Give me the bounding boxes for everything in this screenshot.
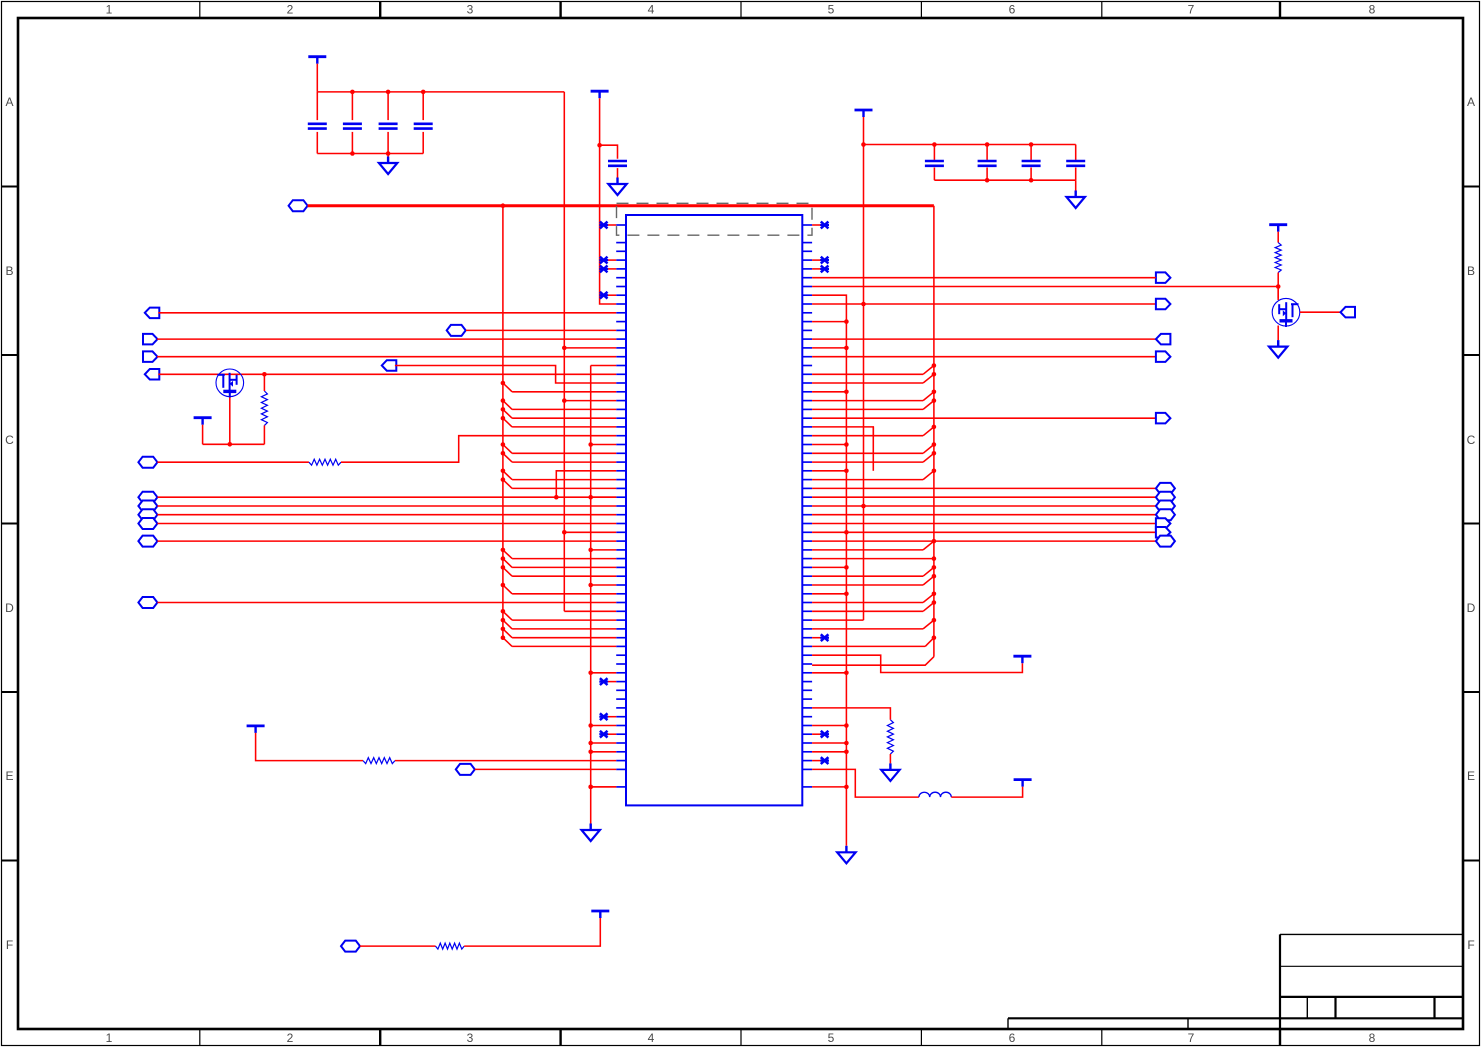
transistor Q2 [1272, 298, 1300, 326]
junction [350, 151, 355, 156]
wire net k64 [591, 786, 617, 788]
wire cap C3 top lead [387, 92, 389, 120]
wire tap B k20 [564, 400, 616, 402]
port IO D0 [138, 492, 157, 503]
resistor R2 [309, 459, 341, 465]
no-connect L0 [600, 222, 608, 229]
svg-text:5: 5 [828, 3, 835, 17]
svg-text:C: C [1467, 433, 1476, 447]
ground symbol GND1 [387, 157, 389, 164]
junction [932, 635, 937, 640]
junction [562, 398, 567, 403]
svg-text:B: B [1467, 264, 1475, 278]
svg-text:1: 1 [106, 3, 113, 17]
ground symbol GND3 [1074, 191, 1076, 198]
IC U1 left pins [616, 224, 626, 226]
svg-text:4: 4 [648, 1031, 655, 1045]
wire cap C6 bottom lead [933, 168, 935, 181]
wire net IO2 b [341, 436, 616, 463]
port OUT2 [143, 351, 158, 362]
wire main bus [308, 204, 934, 207]
junction [861, 302, 866, 307]
junction [844, 530, 849, 535]
wire Q2 gate [1300, 311, 1341, 313]
wire net RX1 [812, 338, 1156, 340]
port TX3 [1156, 351, 1171, 362]
no-connect L5 [600, 266, 608, 273]
wire VCC5 stem [256, 733, 363, 761]
junction [932, 556, 937, 561]
junction [262, 372, 267, 377]
wire net k45 [812, 619, 863, 621]
wire net k49 [812, 655, 1022, 672]
wire Q1 source rail [203, 443, 265, 445]
wire VCC3 stem / trunk F [863, 117, 865, 620]
wire net A3 [812, 514, 1156, 516]
dashed group box [617, 203, 813, 235]
wire net D3 [157, 523, 616, 525]
capacitor C3 [379, 123, 398, 126]
IC U1 right pins [802, 224, 812, 226]
port IN1 [145, 308, 160, 319]
wire net D1 [157, 505, 616, 507]
wire net k28 riser [556, 471, 616, 497]
wire net IO5 b [464, 918, 600, 946]
power symbol VCC5 [247, 725, 265, 728]
wire trunk A [502, 206, 504, 638]
wire trunk G tail [812, 657, 934, 666]
junction [562, 530, 567, 535]
junction [554, 495, 559, 500]
wire net TX2 [812, 303, 1156, 305]
wire net TX5 [812, 523, 1156, 525]
wire riser [872, 427, 874, 471]
wire net A2 [812, 505, 1156, 507]
wire trunk G [933, 206, 935, 657]
wire cap C4 bottom lead [422, 132, 424, 154]
wire cap C1 top lead [316, 92, 318, 120]
port IO A2 [1156, 501, 1175, 512]
title block [1279, 934, 1281, 1029]
wire net k23 [812, 427, 873, 436]
port IO D2 [138, 509, 157, 520]
port IO D5 [138, 597, 157, 608]
svg-text:8: 8 [1369, 3, 1376, 17]
ground symbol GND4 [590, 824, 592, 831]
wire net k48 [812, 645, 925, 647]
port CTRL [1341, 307, 1356, 318]
wire net k61 [395, 760, 616, 762]
wire Q2 drain [1277, 287, 1279, 301]
wire net IO1 [466, 329, 616, 331]
port IO A4 [1156, 536, 1175, 547]
wire net k38 [812, 558, 934, 560]
port IN3 [382, 360, 397, 371]
svg-text:D: D [5, 601, 14, 615]
svg-text:4: 4 [648, 3, 655, 17]
wire net D5 [157, 602, 616, 604]
capacitor C4 [414, 123, 433, 126]
wire net k62 b [951, 787, 1022, 798]
svg-text:6: 6 [1009, 3, 1016, 17]
wire Q2 source [1277, 326, 1279, 341]
IC U1 [626, 215, 802, 805]
wire net k8 [812, 295, 846, 846]
wire net IN1 [158, 312, 616, 314]
capacitor C5 [608, 160, 627, 163]
port OUT1 [143, 334, 158, 345]
junction [228, 442, 233, 447]
wire net IO2 a [157, 461, 309, 463]
wire cap C7 bottom lead [986, 168, 988, 181]
no-connect stubs [607, 224, 616, 226]
wire gnd lead [387, 154, 389, 157]
no-connect L52 [600, 678, 608, 685]
resistor R6 [436, 943, 465, 949]
ground symbol GND6 [845, 846, 847, 853]
junction [985, 178, 990, 183]
no-connect L8 [600, 292, 608, 299]
wire cap C1 bottom lead [316, 132, 318, 154]
wire cap C8 bottom lead [1030, 168, 1032, 181]
power symbol VCC4 [194, 416, 212, 419]
no-connect R58 [821, 731, 829, 738]
transistor Q1 [216, 369, 244, 397]
port bus port VDD [289, 200, 308, 211]
no-connect L4 [600, 257, 608, 264]
wire net OUT1 [157, 338, 616, 340]
wire cap C4 top lead [422, 92, 424, 120]
wire R4 to junction [1277, 273, 1279, 299]
capacitor C2 [343, 123, 362, 126]
wire trunk A taps [501, 381, 506, 386]
wire VCC6 stem [1277, 232, 1279, 243]
wire VCC rail top-left [317, 91, 564, 93]
svg-text:F: F [6, 938, 13, 952]
port IO A1 [1156, 492, 1175, 503]
wire trunk B [563, 92, 565, 611]
wire gnd rail top-right [934, 179, 1075, 181]
svg-text:E: E [1467, 769, 1475, 783]
port TX2 [1156, 299, 1171, 310]
port IO D4 [138, 536, 157, 547]
wire net Q2 gate-drain [812, 286, 1278, 288]
wire VCC1 stem [316, 64, 318, 92]
wire net TX1 [812, 277, 1156, 279]
resistor R4 [1275, 243, 1281, 273]
port IO A3 [1156, 509, 1175, 520]
wire tap C k16 [591, 365, 617, 367]
port TX4 [1156, 413, 1171, 424]
junction [861, 504, 866, 509]
wire net TX3 [812, 356, 1156, 358]
capacitor C7 [978, 160, 997, 163]
wire cap C9 top lead [1075, 145, 1077, 160]
wire net k62 a [812, 769, 919, 797]
svg-text:7: 7 [1188, 1031, 1195, 1045]
svg-text:2: 2 [287, 3, 294, 17]
no-connect L58 [600, 731, 608, 738]
ground symbol GND2 [616, 178, 618, 185]
svg-text:3: 3 [467, 1031, 474, 1045]
wire C5 bottom lead [617, 168, 619, 177]
resistor R1 [261, 391, 267, 425]
ground symbol GND5 [1277, 340, 1279, 347]
no-connect R61 [821, 757, 829, 764]
svg-text:F: F [1467, 938, 1474, 952]
svg-text:D: D [1467, 601, 1476, 615]
junction [932, 142, 937, 147]
wire net IO3 [475, 768, 616, 770]
wire net k24 pin [812, 435, 873, 437]
port IO D3 [138, 518, 157, 529]
wire trunk C [590, 366, 592, 824]
junction [1276, 284, 1281, 289]
power symbol VCC7 [1013, 655, 1031, 658]
junction trunk A on bus [501, 203, 506, 208]
wire cap C8 top lead [1030, 145, 1032, 160]
wire cap C2 top lead [351, 92, 353, 120]
port TX1 [1156, 272, 1171, 283]
no-connect L56 [600, 713, 608, 720]
no-connect R5 [821, 266, 829, 273]
port TX6 [1156, 527, 1171, 538]
port IO1 [447, 325, 466, 336]
junction [350, 90, 355, 95]
wire gnd rail top-left [317, 153, 423, 155]
svg-text:2: 2 [287, 1031, 294, 1045]
wire net A1 [812, 496, 1156, 498]
wire net D4 [157, 540, 616, 542]
port IO A0 [1156, 483, 1175, 494]
wire net D0 [157, 496, 616, 498]
wire tap B k35 [564, 531, 616, 533]
wire R5 bottom lead [889, 754, 891, 763]
wire trunk E taps [844, 319, 849, 324]
wire cap C6 top lead [933, 145, 935, 160]
svg-text:A: A [1467, 95, 1475, 109]
wire cap C7 top lead [986, 145, 988, 160]
wire cap C9 bottom lead [1075, 168, 1077, 181]
wire net IN2 [158, 373, 616, 375]
port IO D1 [138, 501, 157, 512]
wire trunk C taps [588, 442, 593, 447]
wire net k24 [873, 435, 923, 437]
junction [588, 785, 593, 790]
junction [562, 346, 567, 351]
junction [861, 142, 866, 147]
no-connect R47 [821, 634, 829, 641]
wire gnd lead [1075, 180, 1077, 190]
wire tap B k44 [564, 610, 616, 612]
svg-text:3: 3 [467, 3, 474, 17]
wire cap C2 bottom lead [351, 132, 353, 154]
svg-text:7: 7 [1188, 3, 1195, 17]
port RX1 [1156, 334, 1171, 345]
wire net TX4 [812, 417, 1156, 419]
wire trunk D [600, 98, 617, 304]
wire VCC2 cap branch [600, 145, 618, 159]
wire net IO5 a [360, 945, 436, 947]
resistor R3 [363, 758, 395, 764]
power symbol VCC3 [855, 109, 873, 112]
svg-text:1: 1 [106, 1031, 113, 1045]
resistor R5 [887, 720, 893, 754]
junction [597, 143, 602, 148]
svg-text:C: C [5, 433, 14, 447]
junction [932, 425, 937, 430]
port IO3 [456, 764, 475, 775]
power symbol VCC9 [591, 910, 609, 913]
wire net k55 [812, 708, 890, 720]
wire net D2 [157, 514, 616, 516]
svg-text:5: 5 [828, 1031, 835, 1045]
svg-text:8: 8 [1369, 1031, 1376, 1045]
svg-text:A: A [5, 95, 13, 109]
wire net OUT2 [157, 356, 616, 358]
wire net A0 [812, 487, 1156, 489]
power symbol VCC8 [1014, 778, 1032, 781]
power symbol VCC1 [308, 55, 326, 58]
capacitor C1 [308, 123, 327, 126]
port IO2 [138, 457, 157, 468]
wire trunk G jogs [812, 373, 923, 375]
wire cap C3 bottom lead [387, 132, 389, 154]
wire R1 bottom lead [263, 425, 265, 444]
wire VCC4 stem [202, 425, 204, 445]
capacitor C6 [925, 160, 944, 163]
power symbol VCC6 [1269, 223, 1287, 226]
capacitor C9 [1066, 160, 1085, 163]
no-connect R0 [821, 222, 829, 229]
port IO5 [341, 941, 360, 952]
ground symbol GND7 [889, 763, 891, 770]
wire net A4 [812, 540, 1156, 542]
wire tap B k14 [564, 347, 616, 349]
capacitor C8 [1022, 160, 1041, 163]
wire net IN3 [395, 366, 616, 384]
inductor L1 [919, 792, 951, 797]
port IN2 [145, 369, 160, 380]
wire R1 top lead [263, 374, 265, 391]
svg-text:6: 6 [1009, 1031, 1016, 1045]
svg-text:E: E [5, 769, 13, 783]
wire Q1 source [229, 398, 231, 445]
svg-text:B: B [5, 264, 13, 278]
wire VCC rail top-right [864, 144, 1076, 146]
port TX5 [1156, 518, 1171, 529]
wire net TX6 [812, 531, 1156, 533]
power symbol VCC2 [591, 90, 609, 93]
no-connect R4 [821, 257, 829, 264]
